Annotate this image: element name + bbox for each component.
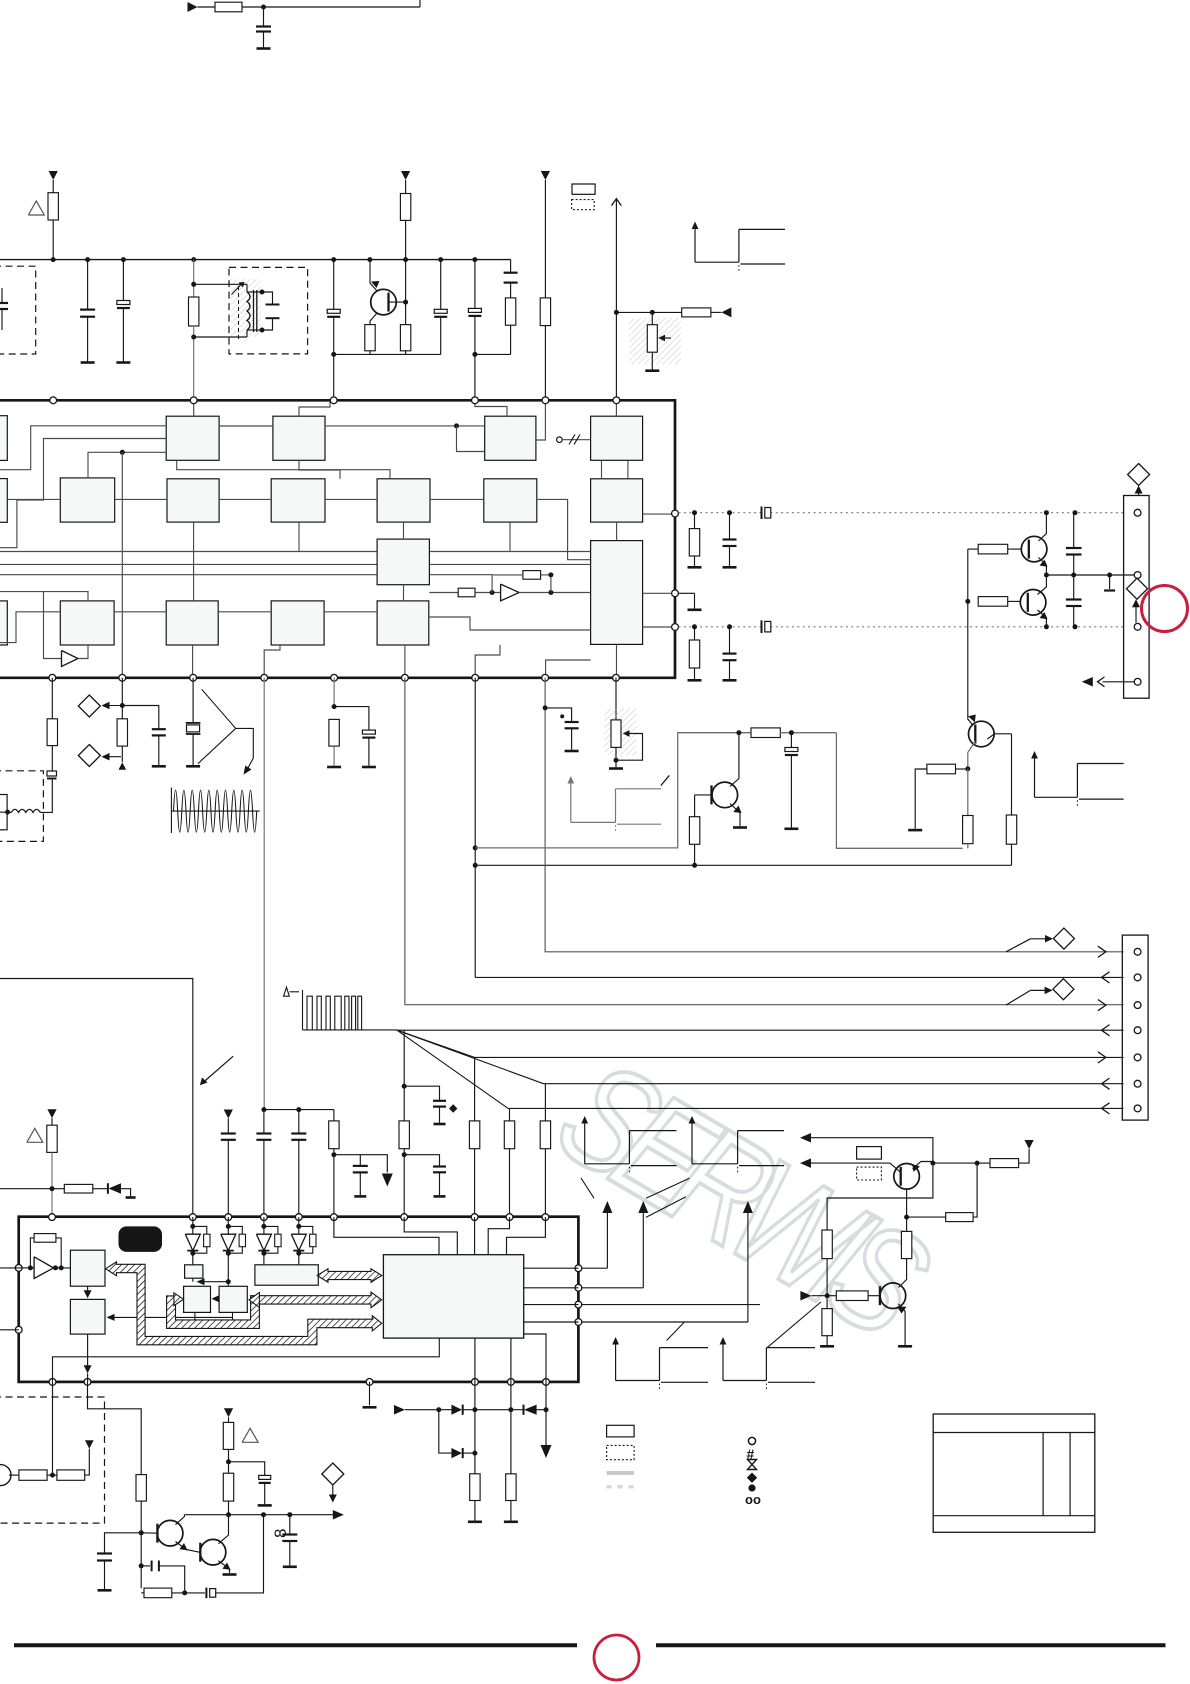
wire xyxy=(228,1449,230,1473)
wire xyxy=(578,1321,748,1323)
resistor R31 xyxy=(822,1230,832,1259)
capacitor C20 (electrolytic) xyxy=(790,733,792,748)
bus line left segment (to U2) xyxy=(0,979,193,1218)
transistor T2 xyxy=(200,1539,226,1565)
wire xyxy=(198,6,216,8)
node q6-r xyxy=(975,1161,980,1166)
crystal X1 xyxy=(186,722,201,724)
wire cap left xyxy=(105,1533,142,1554)
U1 bottom pin 16 xyxy=(472,674,479,681)
Q5 emitter arrow xyxy=(968,715,976,723)
ground xyxy=(688,679,702,682)
U1 block matrix xyxy=(377,539,429,585)
bus6 arrow xyxy=(1102,1078,1110,1089)
wire xyxy=(85,1449,90,1475)
Q7 collector xyxy=(899,1273,907,1288)
wf5 pointer xyxy=(646,1178,689,1198)
wire xyxy=(474,1501,476,1521)
wire (rail to coil filter) xyxy=(193,260,195,297)
wire xyxy=(227,1253,229,1286)
node rc-r xyxy=(182,1590,187,1595)
wire xyxy=(334,707,369,731)
feedback loop xyxy=(30,1238,34,1268)
node e-b xyxy=(1071,573,1076,578)
U1 block clamp xyxy=(377,601,429,645)
resistor R22 xyxy=(333,1110,335,1121)
node pot-line xyxy=(614,310,619,315)
capacitor C18 (electrolytic) xyxy=(362,730,375,734)
node c20-top xyxy=(789,730,794,735)
supply arrow (up) xyxy=(119,762,127,770)
resistor R15 xyxy=(117,719,127,746)
signal line1 (video out, dotted) xyxy=(679,512,1124,514)
resistor R8 xyxy=(540,298,550,326)
U1 top pin 1 xyxy=(50,397,57,404)
wire xyxy=(404,1155,439,1167)
symbol hourglass xyxy=(748,1460,757,1470)
wire xyxy=(915,769,927,829)
supply arrow VCC7 xyxy=(85,1440,94,1449)
ground xyxy=(283,1566,297,1569)
wire xyxy=(52,1382,54,1475)
input arrow (top feed) xyxy=(188,2,198,12)
wire (to line y865) xyxy=(474,678,476,978)
U2 bottom pin p15 xyxy=(543,1379,550,1386)
node coil-top xyxy=(191,282,196,287)
resistor R21 xyxy=(963,816,973,844)
wire xyxy=(228,1501,230,1515)
wire cpu-t5 xyxy=(507,1217,546,1255)
ground xyxy=(258,1504,272,1507)
arrow into D3 xyxy=(1030,938,1051,940)
capacitor C1 (top) xyxy=(256,25,271,27)
fan diagonal 2 xyxy=(397,1030,544,1084)
capacitor C19 xyxy=(565,721,579,723)
U1 block hosc xyxy=(591,479,643,522)
J1 pin4 wire out xyxy=(1103,681,1135,683)
line y865 (keying) xyxy=(475,864,1011,866)
end bar xyxy=(354,1195,366,1198)
resistor u1-r1 xyxy=(458,588,475,597)
wire u1-out3 xyxy=(643,626,675,628)
node coil-bot xyxy=(191,335,196,340)
footer rule left xyxy=(14,1643,577,1647)
node u1-n5 xyxy=(548,572,553,577)
wire cpu-r4 xyxy=(524,1321,579,1323)
U2 top pin p9 xyxy=(506,1214,513,1221)
U2 bottom pin p16 xyxy=(508,1379,515,1386)
arrow B2 to A2 xyxy=(216,1298,219,1300)
wire u1-w9 xyxy=(299,460,340,479)
U2 block R1 xyxy=(70,1250,105,1286)
wire u1-v3 xyxy=(403,522,405,539)
Q4 collector xyxy=(730,733,739,787)
warning triangle 3 xyxy=(242,1428,258,1442)
Q7 emitter arrow xyxy=(897,1307,907,1314)
wire xyxy=(263,7,265,26)
Q1 collector arrow xyxy=(371,281,380,288)
Q6 emitter xyxy=(913,1162,933,1170)
marker diamond small xyxy=(449,1104,457,1113)
node Q1 base xyxy=(403,300,408,305)
arrow into D1 xyxy=(1138,487,1140,496)
signal arrow down xyxy=(382,1174,393,1187)
resistor R9 xyxy=(682,308,711,317)
U2 top pin p8 xyxy=(471,1214,478,1221)
node q7-b xyxy=(825,1293,830,1298)
resistor R12 (Q2 base) xyxy=(978,544,1008,554)
U1 block chroma xyxy=(60,601,114,645)
U1 bottom pin 20 xyxy=(190,674,197,681)
resistor R20 xyxy=(927,764,956,774)
resistor R43 xyxy=(136,1475,146,1502)
Q3 emitter xyxy=(1038,610,1047,627)
node l3-a xyxy=(692,624,697,629)
wire xyxy=(510,1382,512,1474)
resistor R27 xyxy=(990,1159,1019,1168)
wire xyxy=(475,353,511,355)
U1 right pin 13 xyxy=(672,510,679,517)
diamond marker D1 xyxy=(1128,464,1150,486)
signal arrow up 3 xyxy=(747,1213,749,1322)
hatched bus band 2 (double arrow) xyxy=(317,1269,382,1282)
node rail-d xyxy=(191,257,196,262)
wire xyxy=(694,668,696,679)
wire u1-w20 xyxy=(0,612,60,643)
wire u1-v5 xyxy=(509,522,511,551)
wire xyxy=(544,326,546,401)
wire xyxy=(932,1162,934,1164)
wire u1-L2 (long h) xyxy=(0,563,591,565)
Q1 base wire xyxy=(389,301,406,303)
wire xyxy=(463,1452,475,1454)
node dr-b xyxy=(472,1407,477,1412)
resistor R33 xyxy=(47,1125,57,1152)
Q5 collector xyxy=(987,734,1011,739)
T2 emitter xyxy=(218,1561,229,1573)
diamond marker D2 xyxy=(1127,578,1148,599)
capacitor C13 (series electrolytic) xyxy=(761,620,763,633)
ground xyxy=(504,1521,518,1524)
end bar xyxy=(434,1195,446,1198)
wire u1-w6 xyxy=(219,425,273,427)
Q2 emitter xyxy=(1039,558,1047,576)
waveform sketch wf5 xyxy=(691,1122,693,1164)
annotation pointer (scope) xyxy=(198,689,236,763)
op-amp U1a (buffer) xyxy=(501,584,519,601)
wire xyxy=(54,1267,71,1269)
arrow into D4 xyxy=(1030,989,1051,991)
ground xyxy=(820,1345,834,1348)
U2 box W (osc) xyxy=(255,1265,318,1285)
wire xyxy=(122,706,159,730)
resistor R37 xyxy=(506,1474,516,1501)
node y865-m xyxy=(692,863,697,868)
wire xyxy=(694,556,696,566)
T1 base wire xyxy=(141,1532,157,1534)
wire u1-w13 xyxy=(536,400,546,440)
wire xyxy=(121,678,123,719)
U2 top pin p6 xyxy=(331,1214,338,1221)
U2 left pin a xyxy=(15,1265,22,1272)
wire xyxy=(298,1253,300,1265)
U2 top pin p1 xyxy=(49,1214,56,1221)
resistor R18 (Q4 base) xyxy=(694,795,696,817)
connector J2 body xyxy=(1122,935,1148,1120)
gray wire loop (flyback feed) xyxy=(475,733,751,848)
buffer U1b xyxy=(62,651,79,667)
node coil-r-bot xyxy=(260,328,265,333)
capacitor C26 xyxy=(433,1165,446,1167)
capacitor C4 (electrolytic) xyxy=(122,260,124,301)
wire cpu-b1 xyxy=(474,1338,476,1382)
capacitor C2 (inside shield) xyxy=(0,302,8,304)
wire pin3 stub xyxy=(578,1304,760,1306)
T2 collector xyxy=(218,1515,228,1544)
node oa-out xyxy=(53,1265,58,1270)
U1 bottom pin 18 xyxy=(331,674,338,681)
J1 pin 3 xyxy=(1134,623,1141,630)
symbol dot xyxy=(748,1484,755,1491)
wire xyxy=(51,746,53,771)
ground xyxy=(723,566,737,569)
signal arrow right end xyxy=(333,1510,344,1520)
wire u1-w3 xyxy=(177,460,390,479)
node t1-b xyxy=(139,1530,144,1535)
resistor R14 xyxy=(47,719,57,746)
wire (to bus3) xyxy=(405,678,1124,1005)
wire xyxy=(263,1253,265,1265)
Q2 collector xyxy=(1039,513,1047,541)
waveform sketch wf2 (gray) xyxy=(570,782,572,822)
wire xyxy=(711,311,722,313)
J1 pin 1 xyxy=(1134,509,1141,516)
warning triangle xyxy=(28,201,44,215)
wire xyxy=(334,1155,387,1173)
node u1-n1 xyxy=(120,450,125,455)
capacitor C11 (series electrolytic) xyxy=(761,507,763,520)
J2 pin 3 xyxy=(1134,1002,1141,1009)
U1 block afc xyxy=(485,416,536,460)
ground xyxy=(645,369,659,372)
Q1 emitter xyxy=(370,313,378,325)
Q7 emitter xyxy=(899,1304,906,1345)
symbol diamond filled xyxy=(747,1473,757,1483)
wire (emitter bus) xyxy=(334,353,441,355)
protection diode group @228.3 xyxy=(227,1217,229,1234)
capacitor C24 xyxy=(359,1155,361,1166)
wire xyxy=(968,548,978,550)
wf7 pointer xyxy=(767,1302,821,1348)
capacitor C6 xyxy=(333,260,335,310)
Q6 emitter arrow xyxy=(912,1164,920,1172)
node r23-b xyxy=(402,1152,407,1157)
U2 top pin p2 xyxy=(189,1214,196,1221)
signal arrow up 1 xyxy=(606,1213,608,1268)
J2 pin 7 xyxy=(1134,1105,1141,1112)
thin line to R2 xyxy=(111,1316,233,1318)
transistor Q2 xyxy=(1021,536,1047,562)
wire xyxy=(192,734,194,765)
U1 right pin 11 xyxy=(672,624,679,631)
connector stub (coil) xyxy=(0,795,7,830)
U2 top pin components: supply arrow xyxy=(47,1109,56,1118)
coil hatch xyxy=(231,279,261,337)
U1 block audio xyxy=(377,479,430,522)
U1 block vif xyxy=(273,416,325,460)
signal arrow left A xyxy=(800,1133,811,1143)
U1 block edge3 xyxy=(0,601,7,645)
wire xyxy=(545,708,572,722)
wire xyxy=(907,1216,946,1218)
capacitor C28 xyxy=(97,1552,112,1554)
node A (top junction) xyxy=(261,5,266,10)
node bf-1 xyxy=(965,599,970,604)
signal line3 (audio, dotted) xyxy=(679,626,1124,628)
node g2 xyxy=(226,1279,231,1284)
wire u1-L1 (long h) xyxy=(0,551,591,553)
wire xyxy=(405,220,407,302)
U2 left pin b xyxy=(15,1326,22,1333)
ground xyxy=(186,765,200,768)
Q6 base wire xyxy=(890,1163,901,1172)
bus3 tap diagonal xyxy=(1006,990,1030,1005)
U1 block sif xyxy=(167,479,219,522)
U1 block vco xyxy=(591,416,643,460)
ground xyxy=(223,1573,237,1576)
node rail-e xyxy=(331,257,336,262)
tuning arrow xyxy=(232,284,243,295)
bus1 tap diagonal xyxy=(1006,939,1030,952)
signal line2 (sandcastle) xyxy=(679,592,695,594)
wire xyxy=(333,1149,335,1217)
wire xyxy=(826,1259,828,1296)
P2 wiper arrow xyxy=(626,733,632,735)
arrow below D7 xyxy=(332,1485,334,1499)
node vline264 xyxy=(261,1107,266,1112)
wire u1-w7 xyxy=(325,425,485,427)
legend gray dashes xyxy=(607,1485,635,1489)
wire xyxy=(194,283,247,285)
node l3-c xyxy=(1044,624,1049,629)
wire cpu-t2 xyxy=(404,1217,457,1255)
resistor R11 xyxy=(694,627,696,640)
wire xyxy=(52,260,54,261)
U1 top pin 2 xyxy=(190,397,197,404)
ground xyxy=(688,566,702,569)
black ident blob xyxy=(119,1226,163,1252)
wire xyxy=(811,1162,890,1164)
node rail-f xyxy=(367,257,372,262)
wire u1-row3 links xyxy=(114,611,166,613)
wire cpu-r1 xyxy=(524,1267,579,1269)
node l3-d xyxy=(1073,624,1078,629)
core bars xyxy=(253,290,255,332)
dashed box (opto) xyxy=(0,1397,105,1523)
capacitor C3 xyxy=(87,260,89,310)
wire xyxy=(262,292,273,305)
wire u1-fb xyxy=(492,575,523,593)
resistor R38 xyxy=(19,1470,47,1480)
resistor R23 xyxy=(403,1030,405,1121)
capacitor C15 xyxy=(1073,575,1075,600)
U1 top pin 5 xyxy=(542,397,549,404)
ground xyxy=(723,679,737,682)
capacitor C30 (series electrolytic) xyxy=(205,1588,207,1599)
wire (to bus1) xyxy=(545,678,1124,952)
supply arrow VCC3 xyxy=(541,171,550,180)
wire xyxy=(333,678,335,707)
resistor R42 xyxy=(144,1588,172,1598)
capacitor C23 xyxy=(298,1110,300,1134)
node e-c xyxy=(1107,573,1112,578)
node dr-c xyxy=(508,1407,513,1412)
U1 block edge1 xyxy=(0,416,7,461)
rail (upper supply) xyxy=(0,259,511,261)
transistor Q3 xyxy=(1020,590,1046,616)
resistor R5 xyxy=(400,194,410,221)
wire xyxy=(906,1259,908,1273)
U1 bottom pin 17 xyxy=(402,674,409,681)
node l1-c xyxy=(1044,510,1049,515)
diode D8 xyxy=(451,1405,462,1415)
wire xyxy=(9,1474,19,1476)
waveform sketch wf7 xyxy=(722,1343,724,1381)
capacitor C10 xyxy=(729,513,731,540)
wire u1-w22 (buffer in) xyxy=(44,592,62,659)
wire xyxy=(439,1172,441,1195)
ground xyxy=(565,750,579,753)
arrow wire xyxy=(200,1281,228,1283)
J2 pin 6 xyxy=(1134,1080,1141,1087)
pulse train waveform xyxy=(302,990,304,1030)
U1 bottom pin 14 xyxy=(613,674,620,681)
resistor R17 xyxy=(751,728,780,738)
wire u1-w21 xyxy=(0,592,88,601)
wire cpu-r3 xyxy=(524,1304,579,1306)
bus3 arrow right xyxy=(1098,1000,1106,1011)
annotation diag xyxy=(646,1197,686,1218)
wire xyxy=(474,354,476,400)
diamond marker D6 xyxy=(78,745,100,767)
P2 wiper loop xyxy=(616,734,643,761)
supply arrow VCC4 xyxy=(224,1110,233,1119)
U1 bottom pin 22 xyxy=(49,674,56,681)
emitter line (video follower out) xyxy=(1046,574,1137,576)
ground xyxy=(257,47,271,50)
T1 collector xyxy=(176,1515,185,1525)
wire xyxy=(405,1409,451,1411)
wire u1-v1 xyxy=(193,522,195,601)
node q4-top xyxy=(543,705,548,710)
wire xyxy=(967,844,969,849)
wire xyxy=(140,1533,142,1588)
U1 block edge2 xyxy=(0,479,7,523)
wire u1-w23 xyxy=(192,645,194,678)
wire u1-v4 xyxy=(403,585,405,601)
wire cpu-gnd xyxy=(53,1338,440,1382)
signal arrow left (AGC) xyxy=(721,307,731,317)
wire xyxy=(615,747,617,767)
node rail-c xyxy=(121,257,126,262)
transistor T1 xyxy=(157,1520,183,1546)
wire u1-w19 xyxy=(429,617,591,630)
bus line 5 xyxy=(475,1056,1124,1058)
supply arrow VCC1 xyxy=(49,171,58,180)
wire xyxy=(439,1410,452,1453)
ground xyxy=(609,767,623,770)
capacitor C17 xyxy=(152,728,166,730)
